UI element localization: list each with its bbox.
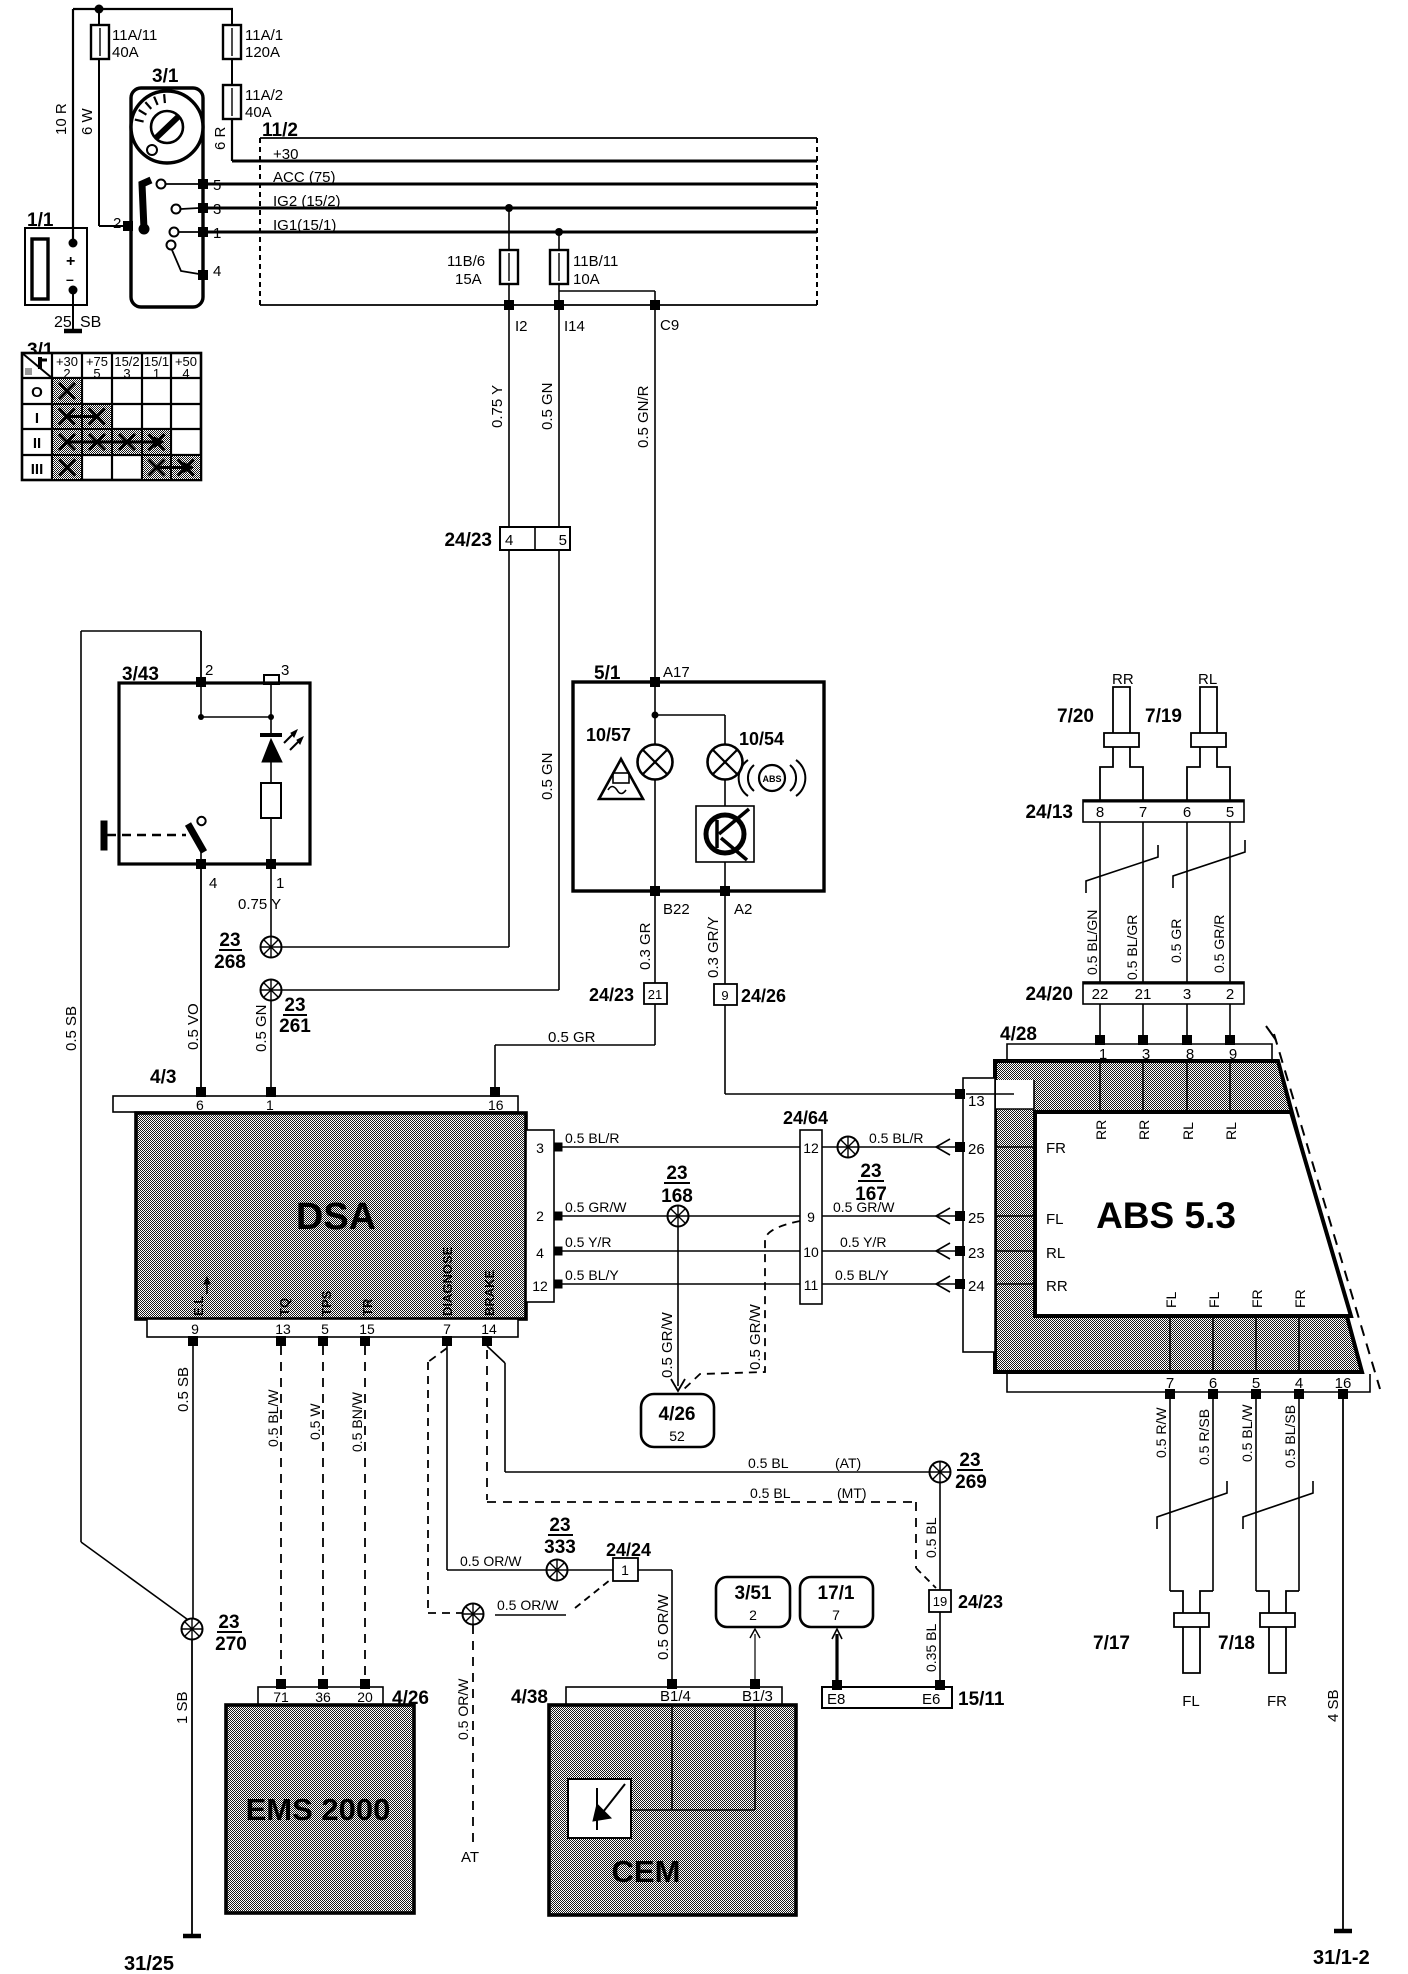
svg-text:21: 21: [648, 987, 662, 1002]
svg-text:B1/4: B1/4: [660, 1688, 691, 1705]
svg-text:ABS 5.3: ABS 5.3: [1096, 1195, 1236, 1236]
svg-text:I: I: [35, 410, 39, 427]
svg-text:11: 11: [804, 1277, 819, 1293]
battery 1/1: [25, 210, 101, 331]
wire 0.5 SB DSA 9 to splice 23/270: [175, 1346, 193, 1618]
connector 24/23 pin 19: [929, 1590, 1003, 1612]
svg-text:16: 16: [488, 1097, 504, 1113]
svg-text:26: 26: [968, 1141, 985, 1158]
key position table 3/1: [22, 340, 201, 480]
dashed wire 0.5 GR/W 24/64 9 to 4/26: [683, 1221, 800, 1390]
node I14: [554, 300, 585, 335]
svg-text:19: 19: [933, 1594, 947, 1609]
svg-text:11A/1: 11A/1: [245, 27, 283, 44]
svg-text:FL: FL: [1182, 1693, 1200, 1710]
svg-text:24/13: 24/13: [1025, 802, 1073, 823]
svg-text:+30: +30: [273, 146, 298, 163]
wire 0.5 BL/GR: [1124, 822, 1143, 982]
svg-text:4/38: 4/38: [511, 1687, 548, 1708]
svg-text:RR: RR: [1112, 671, 1134, 688]
wire 0.5 GR/R: [1211, 822, 1230, 982]
control module ABS 5.3: [995, 1061, 1362, 1372]
svg-text:(AT): (AT): [835, 1455, 861, 1471]
svg-text:AT: AT: [461, 1849, 479, 1866]
svg-text:7: 7: [832, 1607, 840, 1623]
svg-text:9: 9: [807, 1209, 815, 1225]
svg-text:BRAKE: BRAKE: [482, 1269, 497, 1316]
svg-text:ACC (75): ACC (75): [273, 169, 336, 186]
svg-text:IG2 (15/2): IG2 (15/2): [273, 193, 341, 210]
ground at battery: [64, 329, 82, 334]
svg-text:12: 12: [532, 1278, 548, 1294]
wire ACC (75) rail: [208, 169, 817, 186]
connector 11/2 central electrical unit: [260, 120, 817, 305]
svg-text:23: 23: [968, 1245, 985, 1262]
svg-text:0.5 GR/R: 0.5 GR/R: [1211, 915, 1227, 973]
wire to ABS pin 13: [725, 1005, 955, 1094]
wire 0.35 BL to 15/11 E6: [923, 1612, 940, 1687]
svg-text:0.5 BL/R: 0.5 BL/R: [869, 1130, 923, 1146]
svg-text:10/57: 10/57: [586, 725, 631, 745]
svg-text:13: 13: [275, 1321, 291, 1337]
ground 31/1-2: [1313, 1931, 1370, 1969]
svg-text:4/26: 4/26: [659, 1404, 696, 1425]
svg-text:0.5 GN: 0.5 GN: [539, 382, 556, 430]
svg-text:1: 1: [153, 366, 160, 381]
wire 0.5 BL/GN sensor RR: [1084, 822, 1100, 982]
svg-text:7/19: 7/19: [1145, 706, 1182, 727]
svg-text:0.5 GR/W: 0.5 GR/W: [659, 1311, 676, 1378]
svg-text:17/1: 17/1: [818, 1583, 855, 1604]
svg-text:FR: FR: [1292, 1289, 1308, 1308]
svg-text:24/20: 24/20: [1025, 984, 1073, 1005]
svg-text:0.5 R/SB: 0.5 R/SB: [1196, 1409, 1212, 1465]
wires 24/20 to 4/28: [1100, 1004, 1230, 1036]
svg-text:7/20: 7/20: [1057, 706, 1094, 727]
svg-text:4 SB: 4 SB: [1325, 1689, 1342, 1722]
lamp 10/54 ABS warning: [696, 729, 805, 887]
svg-text:0.5 Y/R: 0.5 Y/R: [565, 1234, 611, 1250]
DSA bottom connector strip: [147, 1319, 518, 1346]
dashed diagnose wire DSA 7 AT variant: [428, 1348, 462, 1613]
svg-text:O: O: [31, 384, 43, 401]
splice on AT diagnose wire: [463, 1580, 611, 1625]
twisted pair marks lower: [1157, 1481, 1313, 1529]
dashed wire 0.5 BL/W DSA 13 to EMS 71: [265, 1346, 281, 1680]
svg-text:5: 5: [559, 532, 567, 549]
svg-text:TR: TR: [360, 1298, 375, 1316]
svg-text:23: 23: [959, 1450, 980, 1471]
svg-text:11A/11: 11A/11: [112, 27, 157, 44]
wire 0.5 BL AT from DSA 14 to splice 23/269: [487, 1346, 929, 1472]
svg-text:1 SB: 1 SB: [174, 1691, 191, 1724]
svg-text:23: 23: [666, 1163, 687, 1184]
wire 0.5 R/W ABS 7: [1153, 1399, 1170, 1591]
svg-text:0.3 GR/Y: 0.3 GR/Y: [705, 916, 722, 978]
ground 31/25: [124, 1936, 201, 1974]
svg-text:21: 21: [1135, 986, 1152, 1003]
wire 0.5 GN from I14: [539, 305, 559, 527]
node 4/26 pin 52: [641, 1394, 714, 1447]
svg-text:CEM: CEM: [612, 1854, 681, 1889]
svg-text:RR: RR: [1046, 1278, 1068, 1295]
svg-text:FL: FL: [1206, 1291, 1222, 1308]
svg-text:24/24: 24/24: [606, 1540, 651, 1560]
svg-text:36: 36: [315, 1689, 331, 1705]
ABS bottom connector strip: [1007, 1374, 1370, 1399]
svg-text:RL: RL: [1198, 671, 1217, 688]
svg-text:10: 10: [803, 1244, 819, 1260]
svg-text:24: 24: [968, 1278, 985, 1295]
svg-text:23: 23: [218, 1612, 239, 1633]
connector 15/11: [822, 1680, 1005, 1710]
splice 23/168: [661, 1163, 693, 1227]
switch 3/43 DSA disable: [101, 662, 310, 892]
svg-text:0.5 R/W: 0.5 R/W: [1153, 1407, 1169, 1458]
svg-text:I14: I14: [564, 318, 585, 335]
connector 4/26 on EMS: [258, 1679, 429, 1709]
wire 1 SB to ground: [174, 1640, 192, 1934]
svg-text:C9: C9: [660, 317, 679, 334]
svg-text:0.5 SB: 0.5 SB: [175, 1367, 192, 1412]
wire 0.75 Y to splice 23/268: [508, 550, 510, 947]
svg-text:2: 2: [205, 662, 213, 679]
splice 23/333: [544, 1515, 613, 1581]
wheel sensor 7/19 RL: [1145, 671, 1230, 800]
svg-text:7: 7: [443, 1321, 451, 1337]
svg-text:24/64: 24/64: [783, 1108, 828, 1128]
svg-text:261: 261: [279, 1016, 311, 1037]
svg-text:0.5 BL/SB: 0.5 BL/SB: [1282, 1405, 1298, 1468]
svg-text:1: 1: [621, 1562, 629, 1578]
svg-text:0.5 BL: 0.5 BL: [748, 1455, 789, 1471]
node 17/1: [800, 1577, 873, 1627]
svg-text:24/26: 24/26: [741, 986, 786, 1006]
svg-text:0.5 BL/R: 0.5 BL/R: [565, 1130, 619, 1146]
wire branch to C9: [559, 291, 655, 305]
svg-text:23: 23: [219, 930, 240, 951]
dashed wire 0.5 W DSA 5 to EMS 36: [307, 1346, 323, 1680]
fuse 11A/2 40A: [223, 85, 283, 121]
svg-text:ABS: ABS: [762, 774, 781, 784]
svg-text:4: 4: [209, 875, 217, 892]
fuse 11B/6 15A: [447, 204, 518, 305]
wire 0.75 Y from 3/43 pin 1: [238, 869, 281, 947]
svg-text:FR: FR: [1249, 1289, 1265, 1308]
svg-text:40A: 40A: [245, 104, 272, 121]
wire 0.5 BL/Y DSA 12 to 24/64 11: [562, 1267, 800, 1284]
wire 0.5 BL/R 24/64 to ABS 26 with splice 23/167: [822, 1130, 957, 1205]
wire 0.5 GN/R from C9 to 5/1 A17: [635, 305, 655, 682]
svg-text:+: +: [66, 253, 75, 270]
twisted pair marks upper: [1086, 840, 1245, 893]
svg-text:0.5 OR/W: 0.5 OR/W: [655, 1593, 672, 1660]
svg-text:4/28: 4/28: [1000, 1024, 1037, 1045]
control module EMS 2000: [226, 1705, 414, 1913]
svg-text:14: 14: [481, 1321, 497, 1337]
dashed outline continuation of ABS: [1266, 1026, 1380, 1389]
svg-text:0.5 GR: 0.5 GR: [1168, 919, 1184, 963]
svg-text:E8: E8: [827, 1691, 845, 1708]
svg-text:0.5 GN: 0.5 GN: [253, 1004, 270, 1052]
svg-text:10 R: 10 R: [53, 103, 70, 135]
wire 0.5 SB from 3/43 pin 2 to splice 23/270: [63, 631, 191, 1622]
ignition switch 3/1: [113, 66, 221, 307]
wire 6 W fuse to ignition switch terminal 2: [79, 9, 124, 226]
svg-text:EMS 2000: EMS 2000: [246, 1792, 391, 1827]
svg-text:0.5 GR/W: 0.5 GR/W: [833, 1199, 895, 1215]
svg-text:III: III: [31, 461, 44, 478]
svg-text:RR: RR: [1093, 1120, 1109, 1140]
svg-text:0.5 BL/Y: 0.5 BL/Y: [835, 1267, 889, 1283]
svg-text:2: 2: [1226, 986, 1234, 1003]
svg-text:0.5 BL: 0.5 BL: [750, 1485, 791, 1501]
svg-text:10/54: 10/54: [739, 729, 784, 749]
wire 0.3 GR/Y from A2: [705, 896, 725, 984]
wire 0.5 R/SB ABS 6: [1196, 1399, 1213, 1591]
connector 4/28 on ABS: [1000, 1024, 1272, 1063]
svg-text:0.75 Y: 0.75 Y: [238, 896, 281, 913]
svg-text:II: II: [33, 435, 41, 452]
wheel sensor 7/17 FL: [1093, 1591, 1213, 1710]
svg-text:0.5 GN: 0.5 GN: [539, 752, 556, 800]
svg-text:5: 5: [93, 366, 100, 381]
svg-text:0.5 BL/W: 0.5 BL/W: [265, 1389, 281, 1447]
svg-text:FR: FR: [1046, 1140, 1066, 1157]
svg-text:4: 4: [536, 1245, 544, 1261]
node C9: [650, 300, 679, 334]
svg-text:–: –: [66, 271, 74, 287]
wire 0.5 BL/W ABS 5: [1239, 1399, 1256, 1591]
connector 24/64: [783, 1108, 828, 1304]
node 3/51: [716, 1577, 790, 1627]
node A2: [720, 886, 752, 918]
svg-text:120A: 120A: [245, 44, 280, 61]
svg-text:9: 9: [191, 1321, 199, 1337]
svg-text:I2: I2: [515, 318, 528, 335]
svg-text:7/18: 7/18: [1218, 1633, 1255, 1654]
svg-text:RR: RR: [1136, 1120, 1152, 1140]
wire 0.3 GR from B22: [637, 896, 655, 983]
wire IG1 (15/1) rail: [208, 217, 817, 234]
svg-text:0.5 BL/GR: 0.5 BL/GR: [1124, 915, 1140, 980]
svg-text:12: 12: [803, 1140, 819, 1156]
svg-text:10A: 10A: [573, 271, 600, 288]
svg-text:0.75 Y: 0.75 Y: [489, 385, 506, 428]
svg-text:0.5 BN/W: 0.5 BN/W: [349, 1391, 365, 1452]
svg-text:0.5 GR/W: 0.5 GR/W: [747, 1303, 764, 1370]
svg-text:RL: RL: [1223, 1122, 1239, 1140]
dashed wire 0.5 OR/W to AT: [455, 1625, 479, 1866]
wire 0.5 GR/W splice to 4/26 pin 52: [659, 1227, 685, 1391]
svg-text:52: 52: [669, 1428, 685, 1444]
svg-text:2: 2: [113, 215, 121, 232]
svg-text:5: 5: [1226, 804, 1234, 821]
control module DSA: [136, 1113, 526, 1319]
svg-text:DSA: DSA: [296, 1196, 376, 1238]
svg-text:6 W: 6 W: [79, 107, 96, 135]
splice 23/270: [182, 1612, 247, 1655]
wire 0.5 GR: [1168, 822, 1187, 982]
svg-text:3/1: 3/1: [152, 66, 179, 87]
svg-text:269: 269: [955, 1472, 987, 1493]
svg-text:0.35 BL: 0.35 BL: [923, 1624, 939, 1672]
wire +30 rail: [232, 146, 817, 163]
svg-text:24/23: 24/23: [589, 985, 634, 1005]
svg-text:71: 71: [273, 1689, 289, 1705]
svg-text:0.5 BL/Y: 0.5 BL/Y: [565, 1267, 619, 1283]
svg-text:168: 168: [661, 1186, 693, 1207]
node I2: [504, 300, 528, 335]
svg-text:FR: FR: [1267, 1693, 1287, 1710]
svg-text:15: 15: [359, 1321, 375, 1337]
svg-text:23: 23: [549, 1515, 570, 1536]
svg-text:A17: A17: [663, 664, 690, 681]
ABS left connector strip: [955, 1078, 1035, 1352]
svg-text:0.5 GN/R: 0.5 GN/R: [635, 385, 652, 448]
wire 0.5 Y/R 24/64 to ABS 23: [822, 1234, 957, 1259]
svg-text:4/3: 4/3: [150, 1067, 176, 1088]
wire 0.5 GR/W 24/64 to ABS 25: [822, 1199, 957, 1224]
svg-text:3: 3: [281, 662, 289, 679]
svg-text:7/17: 7/17: [1093, 1633, 1130, 1654]
wire 17/1 to 15/11 E8: [832, 1629, 842, 1682]
svg-text:0.5 OR/W: 0.5 OR/W: [497, 1597, 559, 1613]
svg-text:6 R: 6 R: [212, 126, 229, 150]
svg-text:0.3 GR: 0.3 GR: [637, 922, 654, 970]
svg-text:23: 23: [860, 1161, 881, 1182]
connector 4/38 on CEM: [511, 1679, 782, 1708]
connector 24/26 pin 9: [714, 984, 786, 1006]
wire 25 SB battery negative to ground: [72, 294, 74, 329]
fuse 11B/11 10A: [550, 228, 618, 305]
svg-text:11A/2: 11A/2: [245, 87, 283, 104]
svg-text:IG1(15/1): IG1(15/1): [273, 217, 336, 234]
node B22: [650, 886, 690, 918]
wire 4 SB ABS 16 to ground: [1325, 1399, 1343, 1930]
connector 24/23 pins 4 and 5: [444, 527, 570, 551]
svg-text:3/51: 3/51: [735, 1583, 772, 1604]
svg-text:23: 23: [284, 995, 305, 1016]
svg-text:3: 3: [123, 366, 130, 381]
svg-text:E.L: E.L: [191, 1296, 206, 1316]
junction node at top feed: [95, 5, 104, 14]
svg-text:B1/3: B1/3: [742, 1688, 773, 1705]
wire 0.5 GN below connector: [539, 550, 559, 990]
wire 6 R fuse 11A/2 to +30 rail: [212, 119, 232, 161]
wire 0.5 BL/R DSA 3 to 24/64 12: [562, 1130, 800, 1147]
connector 24/13: [1025, 800, 1244, 823]
wire 0.5 BL splice to 24/23 pin 19: [923, 1483, 940, 1590]
svg-text:FL: FL: [1163, 1291, 1179, 1308]
svg-text:268: 268: [214, 952, 246, 973]
wire 0.5 GR/W DSA 2 to 24/64 9: [562, 1199, 800, 1216]
wire 0.5 OR/W to CEM B1/4: [638, 1570, 672, 1680]
svg-text:9: 9: [721, 988, 728, 1003]
svg-text:0.5 Y/R: 0.5 Y/R: [840, 1234, 886, 1250]
DSA right connector strip: [526, 1130, 563, 1302]
svg-text:31/25: 31/25: [124, 1953, 174, 1974]
wire 0.5 Y/R DSA 4 to 24/64 10: [562, 1234, 800, 1251]
svg-text:24/23: 24/23: [444, 530, 492, 551]
svg-text:11B/11: 11B/11: [573, 253, 618, 270]
svg-text:RL: RL: [1046, 1245, 1065, 1262]
splice 23/261: [261, 980, 560, 1038]
wheel sensor 7/18 FR: [1218, 1591, 1299, 1710]
splice 23/268: [214, 930, 509, 973]
wire 10 R from battery positive to fuse feed: [53, 9, 233, 243]
svg-text:1: 1: [266, 1097, 274, 1113]
svg-text:5: 5: [321, 1321, 329, 1337]
connector 24/20: [1025, 982, 1244, 1005]
connector 4/3 on DSA: [113, 1067, 518, 1113]
wire between fuses 11A/1 and 11A/2: [231, 9, 233, 85]
svg-text:333: 333: [544, 1537, 576, 1558]
svg-text:E6: E6: [922, 1691, 940, 1708]
svg-text:15/11: 15/11: [958, 1689, 1005, 1710]
svg-text:24/23: 24/23: [958, 1592, 1003, 1612]
svg-text:0.5 BL/W: 0.5 BL/W: [1239, 1404, 1255, 1462]
connector 24/24 pin 1: [606, 1540, 651, 1581]
svg-text:13: 13: [968, 1093, 985, 1110]
svg-text:(MT): (MT): [837, 1485, 867, 1501]
control module CEM: [549, 1705, 796, 1915]
svg-text:SB: SB: [80, 314, 101, 331]
wire 0.5 BL/SB ABS 4: [1282, 1399, 1299, 1591]
svg-text:11B/6: 11B/6: [447, 253, 485, 270]
wire from 3/43 pin 2 to 0.5 SB run: [81, 631, 201, 678]
svg-text:31/1-2: 31/1-2: [1313, 1947, 1370, 1969]
svg-text:1: 1: [276, 875, 284, 892]
dashed wire 0.5 BL MT from DSA 14: [487, 1350, 936, 1588]
wire 0.5 VO from 3/43 pin 4 to DSA pin 6: [185, 869, 202, 1088]
wire 0.5 BL/Y 24/64 to ABS 24: [822, 1267, 957, 1292]
svg-text:B22: B22: [663, 901, 690, 918]
svg-text:20: 20: [357, 1689, 373, 1705]
svg-text:TQ: TQ: [277, 1298, 292, 1316]
lamp 10/57 anti-skid warning: [586, 725, 673, 887]
svg-text:0.5 OR/W: 0.5 OR/W: [460, 1553, 522, 1569]
svg-text:6: 6: [1183, 804, 1191, 821]
svg-text:0.5 OR/W: 0.5 OR/W: [455, 1678, 471, 1740]
svg-text:4: 4: [213, 263, 221, 280]
svg-text:A2: A2: [734, 901, 752, 918]
wire IG2 (15/2) rail: [208, 193, 817, 210]
wheel sensor 7/20 RR: [1057, 671, 1143, 800]
svg-text:0.5 GR: 0.5 GR: [548, 1029, 596, 1046]
svg-text:0.5 VO: 0.5 VO: [185, 1003, 202, 1050]
svg-text:15A: 15A: [455, 271, 482, 288]
svg-text:RL: RL: [1180, 1122, 1196, 1140]
svg-text:DIAGNOSE: DIAGNOSE: [440, 1246, 455, 1316]
svg-text:7: 7: [1139, 804, 1147, 821]
svg-text:0.5 W: 0.5 W: [307, 1403, 323, 1440]
svg-text:0.5 SB: 0.5 SB: [63, 1006, 80, 1051]
svg-text:4: 4: [182, 366, 189, 381]
svg-text:FL: FL: [1046, 1211, 1064, 1228]
svg-text:TPS: TPS: [319, 1290, 334, 1316]
svg-text:2: 2: [536, 1208, 544, 1224]
svg-text:25: 25: [54, 314, 72, 331]
svg-text:2: 2: [749, 1607, 757, 1623]
wire 0.75 Y from I2: [489, 305, 509, 527]
wire 3/51 to CEM B1/3: [750, 1629, 760, 1680]
wire 0.5 GR to DSA pin 16: [495, 1004, 655, 1088]
connector 24/23 pin 21: [589, 983, 667, 1005]
svg-text:270: 270: [215, 1634, 247, 1655]
svg-text:8: 8: [1096, 804, 1104, 821]
svg-text:40A: 40A: [112, 44, 139, 61]
